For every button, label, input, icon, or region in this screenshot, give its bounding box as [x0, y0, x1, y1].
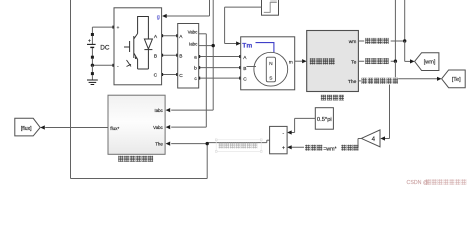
- arrowhead into motor-measure: [302, 59, 307, 63]
- label Te port: [351, 59, 356, 65]
- junction Te: [394, 60, 397, 63]
- label meas a: [194, 55, 197, 60]
- arrowhead into gain: [380, 136, 385, 140]
- label + port: [117, 25, 120, 30]
- port square machine A: [239, 55, 242, 58]
- wire gate g from top: [166, 0, 209, 16]
- label machine C: [243, 76, 247, 82]
- goto tag [wm]: [415, 53, 439, 71]
- port square measurement a: [197, 55, 200, 58]
- svg-text:-: -: [117, 64, 119, 70]
- wire DC+ to inverter: [92, 27, 112, 34]
- arrowhead into Tm: [236, 41, 241, 45]
- wire phase B inverter to measurement: [162, 54, 178, 56]
- wire Iabc branch to top: [212, 0, 214, 46]
- port square DC- terminal: [91, 56, 94, 59]
- svg-text:+: +: [88, 38, 91, 44]
- label flux* port: [110, 126, 119, 131]
- label flux Iabc port: [154, 108, 163, 113]
- arrowhead into goto wm: [410, 59, 415, 63]
- svg-text:[wm]: [wm]: [424, 60, 436, 66]
- wire step to Tm: [225, 7, 262, 43]
- wire Te branch to top: [394, 0, 396, 61]
- label wm port: [349, 40, 357, 45]
- svg-text:Vabc: Vabc: [188, 30, 198, 35]
- wire wm output: [358, 40, 404, 42]
- step icon: [264, 0, 277, 12]
- label dingzi-cilian-jisuan (stator flux calculation): [118, 156, 153, 162]
- svg-text:B: B: [179, 54, 182, 60]
- svg-text:Tm: Tm: [242, 42, 252, 49]
- stator flux calculation block: [108, 95, 165, 154]
- svg-text:b: b: [194, 66, 197, 72]
- wire wm to goto: [405, 41, 411, 61]
- battery internal + lead: [91, 36, 93, 44]
- wire wm branch to top: [404, 0, 406, 41]
- label - port: [117, 64, 119, 70]
- arrowhead flux-calc Iabc input: [166, 108, 171, 112]
- label inverter C: [154, 73, 158, 79]
- wire phase C inverter to measurement: [162, 74, 178, 76]
- arrowhead into g port: [162, 14, 167, 18]
- svg-text:The: The: [155, 142, 163, 147]
- sum block (flipped subtract): [270, 126, 288, 153]
- svg-text:a: a: [194, 55, 197, 60]
- svg-text:B: B: [154, 53, 157, 59]
- label meas b: [194, 66, 197, 72]
- PMSM machine block: [241, 37, 295, 90]
- junction wm: [403, 39, 406, 42]
- wire constant to sum: [291, 118, 315, 132]
- label The port: [348, 79, 357, 85]
- arrowhead flux-calc The input: [166, 142, 171, 146]
- svg-text:m: m: [289, 60, 293, 65]
- label Tm: [242, 42, 252, 49]
- port square measurement C: [176, 73, 179, 76]
- port square inverter - input: [112, 64, 115, 67]
- machine rotor circle: [254, 52, 288, 86]
- label machine A: [243, 55, 247, 61]
- label dianjiaodu formula (electrical angle = wm * pole pairs): [304, 144, 359, 152]
- battery internal - lead: [91, 48, 93, 56]
- svg-text:wm: wm: [349, 40, 357, 45]
- arrowhead into goto Te: [437, 77, 442, 81]
- wire Iabc meas to flux-calc: [171, 46, 213, 111]
- machine magnet N-S: [266, 57, 275, 82]
- inverter bridge block U1: [114, 8, 162, 85]
- port square inverter + input: [112, 26, 115, 29]
- svg-text:Iabc: Iabc: [154, 108, 163, 113]
- step source block: [262, 0, 279, 15]
- label meas c: [194, 77, 197, 82]
- label meas B: [179, 54, 182, 60]
- svg-text:=wm*: =wm*: [323, 146, 336, 152]
- wire phase b measurement to machine: [199, 67, 241, 69]
- constant block 0.5*pi: [315, 108, 333, 130]
- label machine B: [243, 66, 246, 72]
- watermark CSDN: [407, 179, 467, 186]
- junction Iabc branch: [212, 44, 215, 47]
- arrowhead into sum - input: [287, 130, 292, 134]
- inverter IGBT and diode icon: [124, 16, 152, 69]
- svg-text:+: +: [282, 146, 285, 152]
- svg-text:Iabc: Iabc: [189, 41, 198, 46]
- label battery +: [88, 38, 91, 44]
- wire phase c measurement to machine: [199, 77, 241, 79]
- wire Vabc meas to flux-calc: [171, 34, 206, 127]
- svg-text:g: g: [157, 14, 160, 20]
- wire sum output to The junction: [207, 140, 269, 142]
- label dingzi-zhuansu (stator speed): [364, 37, 391, 44]
- svg-text:[Te]: [Te]: [452, 77, 461, 83]
- port square measurement b: [197, 66, 200, 69]
- wire theta feedback bottom horizontal: [71, 178, 208, 180]
- label dianji-shuchu (motor output): [310, 58, 335, 64]
- wire DC- down to junction: [91, 59, 93, 66]
- svg-text:C: C: [179, 73, 183, 79]
- svg-text:Te: Te: [351, 59, 356, 65]
- wire junction to ground: [91, 65, 93, 72]
- gain block 4 (pole pairs): [361, 130, 380, 147]
- label shuchu-shuju (output data): [321, 95, 344, 101]
- svg-text:N: N: [269, 61, 273, 67]
- port square measurement B: [176, 54, 179, 57]
- label flux The port: [155, 142, 163, 147]
- label inverter B: [154, 53, 157, 59]
- port square ground: [91, 72, 94, 75]
- arrowhead into sum + input: [287, 145, 292, 149]
- svg-text:C: C: [243, 76, 247, 82]
- wire machine m to motor-measure: [295, 60, 302, 62]
- svg-text:+: +: [117, 25, 120, 30]
- arrowhead flux-calc Vabc input: [166, 125, 171, 129]
- svg-text:flux*: flux*: [110, 126, 119, 131]
- wire flux* to goto: [45, 127, 108, 129]
- wire Te output: [358, 60, 395, 62]
- wire theta feedback vertical up to The junction: [206, 144, 208, 179]
- arrowhead into goto flux: [40, 125, 45, 129]
- label dingzi-jixie-jiaodu (mechanical angle): [361, 77, 398, 84]
- label meas C: [179, 73, 183, 79]
- port square DC+ terminal: [91, 33, 94, 36]
- port square machine B: [239, 66, 242, 69]
- battery plate long: [87, 43, 96, 45]
- machine stator lead: [247, 66, 257, 68]
- three-phase measurement block: [178, 24, 199, 89]
- motor output subsystem block: [307, 31, 359, 92]
- port square machine C: [239, 77, 242, 80]
- svg-text:DC: DC: [100, 44, 110, 51]
- svg-text:4: 4: [372, 136, 376, 143]
- battery plate short: [90, 46, 94, 48]
- junction The/feedback: [206, 142, 209, 145]
- port square measurement A: [176, 34, 179, 37]
- label machine m: [289, 60, 293, 65]
- wire gain output to sum: [291, 139, 361, 148]
- wire phase a measurement to machine: [199, 56, 241, 58]
- svg-text:Vabc: Vabc: [153, 125, 163, 130]
- wire Te to goto: [395, 61, 437, 79]
- port square inverter A: [160, 34, 163, 37]
- goto tag [Te]: [442, 70, 466, 88]
- svg-text:C: C: [154, 73, 158, 79]
- label meas Vabc: [188, 30, 198, 35]
- label meas Iabc: [189, 41, 198, 46]
- wire DC- to inverter: [92, 64, 112, 66]
- port square measurement c: [197, 77, 200, 80]
- label inverter A: [154, 34, 158, 40]
- port square inverter B: [160, 54, 163, 57]
- svg-text:[flux]: [flux]: [21, 126, 32, 132]
- annotation dingzi-de-cichang-jiaodu (stator field angle): [215, 139, 262, 152]
- wire theta feedback long vertical (left): [70, 0, 72, 179]
- svg-text:0.5*pi: 0.5*pi: [317, 117, 332, 123]
- machine Tm blue line: [256, 43, 274, 53]
- ground symbol: [87, 75, 98, 85]
- label DC: [100, 44, 110, 51]
- goto tag [flux]: [15, 118, 40, 136]
- wire phase A inverter to measurement: [162, 35, 178, 37]
- svg-text:B: B: [243, 66, 246, 72]
- svg-text:The: The: [348, 79, 357, 85]
- svg-text:-: -: [282, 131, 284, 137]
- junction DC-/ground: [91, 64, 94, 67]
- wire The output to gain: [358, 81, 389, 139]
- label g port: [157, 14, 160, 20]
- port square inverter C: [160, 73, 163, 76]
- label dianci-zhuanju (electromagnetic torque): [364, 57, 391, 64]
- label meas A: [179, 34, 183, 40]
- svg-text:CSDN @: CSDN @: [407, 180, 429, 186]
- label flux Vabc port: [153, 125, 163, 130]
- wire into flux-calc The input: [171, 143, 207, 145]
- svg-text:S: S: [269, 76, 272, 82]
